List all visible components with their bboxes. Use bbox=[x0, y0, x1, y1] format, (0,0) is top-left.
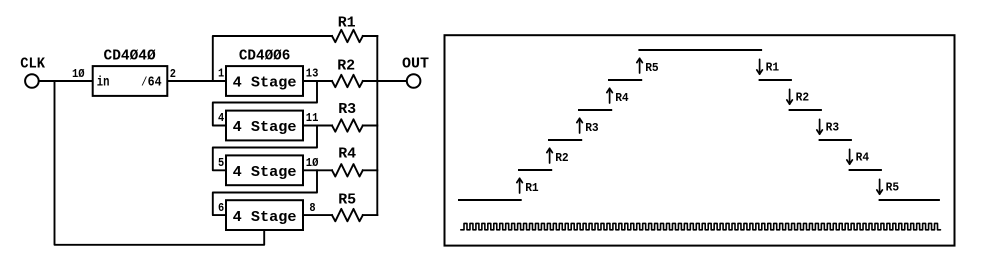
svg-text:R5: R5 bbox=[886, 181, 900, 195]
svg-text:R3: R3 bbox=[826, 121, 840, 135]
svg-text:4 Stage: 4 Stage bbox=[233, 119, 297, 136]
svg-text:4: 4 bbox=[218, 111, 224, 125]
svg-text:R3: R3 bbox=[338, 101, 356, 118]
svg-text:OUT: OUT bbox=[402, 55, 429, 72]
svg-text:11: 11 bbox=[306, 111, 319, 125]
svg-text:CD4Ø4Ø: CD4Ø4Ø bbox=[104, 47, 156, 64]
svg-text:R4: R4 bbox=[856, 151, 870, 165]
svg-text:R4: R4 bbox=[615, 91, 629, 105]
svg-text:⁄64: ⁄64 bbox=[141, 75, 162, 91]
svg-text:4 Stage: 4 Stage bbox=[233, 209, 297, 226]
svg-text:R2: R2 bbox=[796, 91, 810, 105]
svg-text:R2: R2 bbox=[337, 58, 355, 75]
svg-text:1Ø: 1Ø bbox=[306, 156, 319, 170]
svg-text:CLK: CLK bbox=[20, 55, 45, 72]
svg-text:R4: R4 bbox=[338, 146, 356, 163]
svg-text:R2: R2 bbox=[555, 151, 569, 165]
svg-text:6: 6 bbox=[218, 201, 224, 215]
svg-text:2: 2 bbox=[170, 67, 176, 81]
svg-text:1Ø: 1Ø bbox=[72, 67, 85, 81]
svg-text:4 Stage: 4 Stage bbox=[233, 164, 297, 181]
svg-text:R1: R1 bbox=[338, 15, 356, 32]
svg-text:4 Stage: 4 Stage bbox=[233, 75, 297, 92]
svg-text:R1: R1 bbox=[766, 61, 780, 75]
svg-text:in: in bbox=[97, 75, 110, 91]
svg-text:5: 5 bbox=[218, 156, 224, 170]
svg-text:R5: R5 bbox=[338, 192, 356, 209]
svg-text:R3: R3 bbox=[585, 121, 599, 135]
svg-text:CD4ØØ6: CD4ØØ6 bbox=[239, 47, 291, 64]
svg-text:13: 13 bbox=[306, 67, 319, 81]
svg-text:8: 8 bbox=[309, 201, 315, 215]
svg-text:R1: R1 bbox=[525, 181, 539, 195]
svg-text:1: 1 bbox=[218, 67, 224, 81]
svg-text:R5: R5 bbox=[645, 61, 659, 75]
